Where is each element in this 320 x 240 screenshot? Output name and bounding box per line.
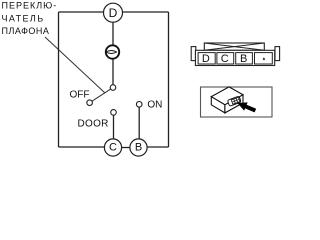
- svg-text:C: C: [221, 53, 229, 65]
- svg-text:C: C: [109, 142, 117, 154]
- connector: cell B: [236, 53, 253, 66]
- contact ON: [136, 102, 142, 108]
- wire: lamp to switch pivot: [112, 59, 114, 84]
- wire: bottom between C and B: [122, 147, 130, 149]
- switch body 3D: right face: [225, 95, 243, 113]
- switch socket detail: [227, 96, 241, 106]
- switch pivot contact: [110, 85, 116, 91]
- terminal B: [130, 139, 147, 156]
- leader line from label to switch arm: [45, 37, 105, 93]
- switch arm to OFF: [92, 89, 111, 101]
- switch body 3D: top face: [211, 87, 243, 105]
- wire: right vertical: [168, 12, 170, 147]
- svg-text:D: D: [202, 53, 210, 65]
- terminal C: [104, 139, 121, 156]
- svg-text:B: B: [135, 142, 142, 154]
- wire: top horizontal left of D: [59, 11, 104, 13]
- connector: index cell with marker: [255, 53, 273, 64]
- svg-text:B: B: [240, 53, 247, 65]
- svg-text:DOOR: DOOR: [78, 118, 109, 129]
- svg-text:OFF: OFF: [70, 90, 90, 101]
- terminal D: [104, 3, 123, 22]
- wire: left vertical: [58, 12, 60, 147]
- wire: bottom horizontal left of C: [59, 146, 105, 148]
- wire: top horizontal right of D: [123, 11, 169, 13]
- connector: right tab: [275, 47, 280, 61]
- switch body 3D: left face: [211, 97, 225, 113]
- svg-text:ПЛАФОНА: ПЛАФОНА: [2, 26, 50, 36]
- connector: left tab: [191, 47, 196, 61]
- wire: D to lamp: [112, 22, 114, 45]
- contact DOOR: [111, 110, 117, 116]
- pointer arrow: [236, 99, 258, 115]
- svg-text:D: D: [109, 6, 118, 20]
- connector: cell D: [198, 53, 215, 66]
- inset frame: [201, 87, 273, 117]
- svg-text:ON: ON: [147, 100, 162, 111]
- wire: bottom right of B: [147, 146, 168, 148]
- wire: ON contact to B: [138, 107, 140, 139]
- contact OFF: [87, 100, 93, 106]
- connector: cell C: [217, 53, 234, 66]
- svg-text:ЧАТЕЛЬ: ЧАТЕЛЬ: [2, 13, 45, 23]
- wire: DOOR contact to C: [113, 115, 115, 139]
- connector: hatched housing top: [204, 43, 264, 50]
- svg-text:ПЕРЕКЛЮ-: ПЕРЕКЛЮ-: [2, 0, 58, 10]
- connector: main row: [195, 50, 274, 65]
- lamp (plafond bulb): [106, 45, 119, 58]
